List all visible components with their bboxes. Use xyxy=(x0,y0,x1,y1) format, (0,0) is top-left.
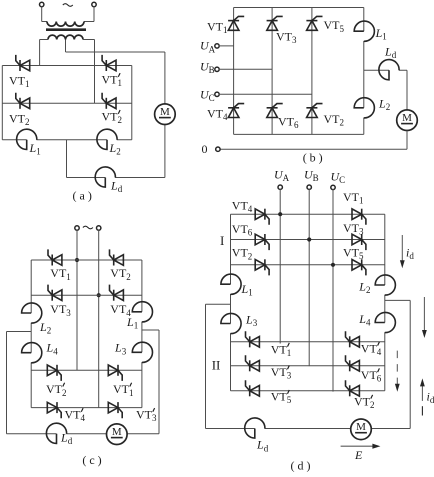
svg-text:I: I xyxy=(220,233,224,248)
svg-text:M: M xyxy=(112,426,122,438)
svg-text:( b ): ( b ) xyxy=(303,151,323,165)
svg-text:M: M xyxy=(402,112,412,124)
svg-text:( c ): ( c ) xyxy=(82,453,101,467)
svg-text:( d ): ( d ) xyxy=(291,459,311,473)
svg-text:II: II xyxy=(212,358,221,373)
svg-text:E: E xyxy=(354,448,363,462)
svg-text:( a ): ( a ) xyxy=(73,189,92,203)
svg-text:M: M xyxy=(160,106,170,118)
svg-text:M: M xyxy=(356,421,366,433)
svg-text:0: 0 xyxy=(202,142,208,156)
